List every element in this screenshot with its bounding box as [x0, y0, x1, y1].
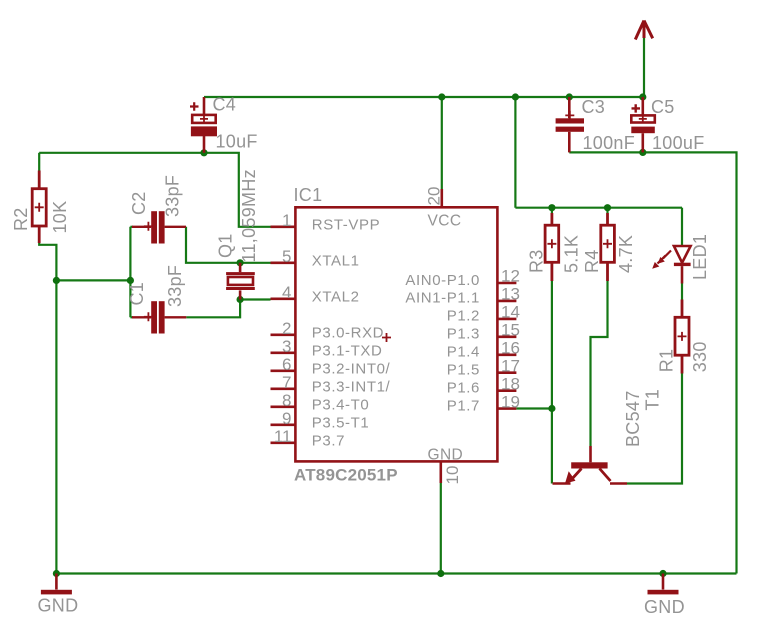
- capacitor C3 100nF: [556, 97, 584, 152]
- C4 polarity plus: [190, 102, 199, 111]
- svg-text:R2: R2: [11, 207, 31, 231]
- node pin20 rail junction: [438, 93, 445, 100]
- svg-text:P3.2-INT0/: P3.2-INT0/: [312, 361, 391, 378]
- node C3 top junction: [566, 93, 573, 100]
- svg-text:AT89C2051P: AT89C2051P: [294, 466, 398, 485]
- wire LED drop: [681, 208, 683, 245]
- wire R2 to caps: [56, 279, 130, 281]
- svg-text:C1: C1: [127, 282, 147, 306]
- svg-text:17: 17: [501, 356, 520, 375]
- svg-text:IC1: IC1: [294, 185, 323, 205]
- svg-text:10K: 10K: [50, 201, 70, 234]
- svg-text:C5: C5: [651, 97, 675, 117]
- svg-text:P1.2: P1.2: [447, 308, 480, 325]
- svg-text:VCC: VCC: [428, 213, 462, 230]
- svg-text:16: 16: [501, 339, 520, 358]
- svg-text:11: 11: [274, 427, 292, 446]
- node C5 bottom junction: [639, 149, 646, 156]
- wire R4 to base jog: [591, 281, 608, 446]
- svg-text:GND: GND: [38, 596, 79, 616]
- node left GND junction: [53, 570, 60, 577]
- resistor R2 10K: [32, 171, 46, 244]
- svg-text:P1.6: P1.6: [447, 380, 480, 397]
- svg-text:100uF: 100uF: [652, 133, 705, 153]
- wire R3 bottom to emitter: [551, 281, 553, 484]
- node R3 top junction: [548, 204, 555, 211]
- wire pin20 drop: [441, 97, 443, 189]
- IC1 pin 20 stub: [440, 189, 443, 207]
- svg-text:5.1K: 5.1K: [562, 235, 582, 273]
- wire C4 net to RST: [39, 153, 270, 227]
- svg-text:Q1: Q1: [216, 233, 236, 258]
- wire C3 C5 bottom net: [569, 152, 736, 573]
- svg-text:R4: R4: [582, 249, 602, 273]
- op IC1 AT89C2051P body: [295, 207, 497, 461]
- ground right GND: [648, 574, 679, 595]
- IC1 pin stubs right: 12..19: [497, 282, 516, 285]
- capacitor C5 100uF: [631, 97, 655, 152]
- svg-text:14: 14: [501, 303, 520, 322]
- svg-text:C2: C2: [129, 191, 149, 215]
- wire R2 bottom jog to ground: [39, 243, 56, 574]
- svg-text:10: 10: [443, 466, 462, 485]
- svg-text:33pF: 33pF: [163, 175, 183, 217]
- node R4 top junction: [604, 204, 611, 211]
- svg-text:19: 19: [501, 392, 520, 411]
- svg-text:11,059MHz: 11,059MHz: [239, 169, 259, 262]
- node XTAL1 junction: [237, 259, 244, 266]
- svg-text:R3: R3: [527, 249, 547, 273]
- ground left GND: [41, 574, 72, 595]
- wire R4 top lead: [606, 208, 608, 213]
- wire bottom ground rail: [56, 572, 736, 574]
- wire LED to R1: [681, 284, 683, 300]
- svg-text:R1: R1: [657, 349, 677, 373]
- svg-text:10uF: 10uF: [216, 132, 258, 152]
- svg-text:100nF: 100nF: [583, 133, 636, 153]
- labels IC right pin names: [405, 272, 480, 415]
- resistor R1 330: [675, 300, 689, 374]
- wire VCC stem: [643, 38, 645, 97]
- svg-text:4.7K: 4.7K: [616, 235, 636, 273]
- svg-text:6: 6: [282, 355, 291, 374]
- svg-text:LED1: LED1: [690, 234, 710, 280]
- svg-text:P3.5-T1: P3.5-T1: [312, 415, 370, 432]
- svg-text:P3.3-INT1/: P3.3-INT1/: [312, 379, 391, 396]
- svg-text:C3: C3: [582, 97, 606, 117]
- svg-text:AIN0-P1.0: AIN0-P1.0: [405, 272, 480, 289]
- svg-text:P1.4: P1.4: [447, 344, 480, 361]
- svg-text:3: 3: [282, 337, 291, 356]
- wire pin10 to ground rail: [440, 483, 442, 574]
- wire R3 top lead: [551, 208, 553, 213]
- svg-text:1: 1: [282, 211, 291, 230]
- labels IC left pin numbers: [274, 211, 292, 446]
- svg-text:4: 4: [282, 283, 291, 302]
- svg-text:15: 15: [501, 321, 520, 340]
- svg-text:XTAL1: XTAL1: [312, 253, 360, 270]
- svg-text:7: 7: [282, 373, 291, 392]
- svg-text:P1.3: P1.3: [447, 326, 480, 343]
- IC1 pin 10 stub: [439, 461, 442, 483]
- svg-text:XTAL2: XTAL2: [312, 289, 360, 306]
- LED LED1: [652, 246, 690, 284]
- svg-text:P3.7: P3.7: [312, 433, 345, 450]
- svg-text:8: 8: [282, 391, 291, 410]
- power VCC symbol: [635, 21, 652, 40]
- IC1 origin cross: [382, 333, 391, 342]
- svg-text:13: 13: [501, 285, 520, 304]
- svg-text:BC547: BC547: [623, 390, 643, 447]
- node C1C2 mid junction: [127, 277, 134, 284]
- wire C1 left lead: [130, 316, 133, 318]
- svg-text:9: 9: [282, 409, 291, 428]
- capacitor C2 33pF: [151, 211, 164, 243]
- svg-text:20: 20: [425, 187, 444, 206]
- crystal Q1 11,059MHz: [226, 263, 255, 300]
- transistor T1 BC547: [553, 446, 628, 484]
- node pin19 junction: [548, 405, 555, 412]
- C5 polarity plus: [632, 104, 641, 112]
- wire collector to R1: [627, 374, 682, 484]
- svg-text:P1.5: P1.5: [447, 362, 480, 379]
- svg-text:AIN1-P1.1: AIN1-P1.1: [405, 290, 480, 307]
- svg-text:330: 330: [690, 341, 710, 372]
- svg-text:5: 5: [282, 247, 291, 266]
- svg-text:GND: GND: [644, 597, 685, 617]
- node C5 top junction: [639, 93, 646, 100]
- svg-text:RST-VPP: RST-VPP: [312, 217, 380, 234]
- wire R-row horizontal: [515, 207, 682, 209]
- svg-text:18: 18: [501, 374, 520, 393]
- node R2 chain junction: [53, 277, 60, 284]
- node XTAL2 junction: [237, 296, 244, 303]
- wire C2 to XTAL1: [186, 227, 271, 263]
- svg-text:P3.4-T0: P3.4-T0: [312, 397, 370, 414]
- wire top VCC rail: [204, 96, 644, 98]
- wire XTAL2: [240, 298, 270, 300]
- resistor R3 5.1K: [545, 213, 559, 281]
- svg-text:12: 12: [501, 267, 520, 286]
- svg-text:P3.0-RXD: P3.0-RXD: [312, 325, 384, 342]
- capacitor C4 10uF: [190, 97, 216, 153]
- node C4 bottom junction: [200, 149, 207, 156]
- resistor R4 4.7K: [601, 213, 615, 281]
- wire C1 C2 left vertical: [129, 227, 131, 317]
- svg-text:C4: C4: [213, 95, 237, 115]
- svg-text:P3.1-TXD: P3.1-TXD: [312, 343, 383, 360]
- svg-text:2: 2: [282, 319, 291, 338]
- svg-text:GND: GND: [428, 447, 464, 464]
- wire R2 top lead: [38, 153, 40, 171]
- wire pin19 to junction: [516, 407, 552, 409]
- node pin10 rail junction: [437, 570, 444, 577]
- capacitor C1 33pF: [151, 301, 164, 333]
- node right GND junction: [659, 570, 666, 577]
- svg-text:T1: T1: [643, 389, 663, 411]
- labels IC left pin names: [312, 217, 391, 450]
- LED1 emission arrows: [663, 251, 671, 259]
- node rail drop junction: [512, 93, 519, 100]
- svg-text:33pF: 33pF: [165, 265, 185, 307]
- wire C2 left lead: [130, 226, 133, 228]
- IC1 pin stubs left: 1,5,4,2,3,6,7,8,9,11: [271, 189, 517, 483]
- wire rail to R-row: [514, 97, 516, 208]
- labels IC right pin numbers: [501, 267, 520, 412]
- svg-text:P1.7: P1.7: [447, 397, 480, 414]
- wire C1 to XTAL2 jog: [186, 300, 240, 318]
